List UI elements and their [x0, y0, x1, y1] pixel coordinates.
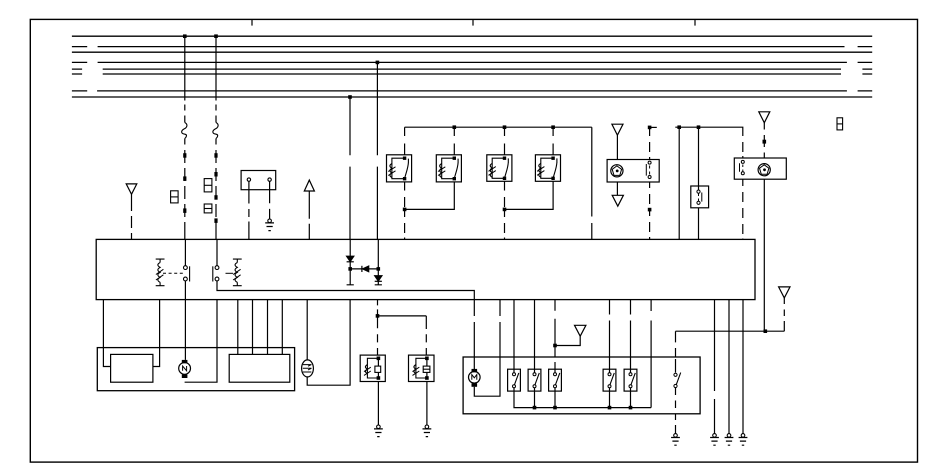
triangle connector C (above pump P1) — [612, 124, 623, 135]
actuation link B — [226, 272, 234, 274]
node below P1 switch — [648, 208, 652, 212]
pump motor symbol in P1 — [611, 165, 623, 177]
wire jog to horn H2 — [378, 316, 427, 355]
wire motor M loop — [474, 357, 500, 396]
wire lamp L1 bottom loop to ECU — [307, 300, 350, 386]
pump unit P1 box — [607, 160, 659, 183]
wire ECU pins to module M2 — [238, 300, 282, 355]
node with stub x=649.6 y=127.4 — [648, 126, 657, 130]
node bus x=555 — [553, 406, 557, 410]
triangle connector B (up arrow, x=309.3) — [304, 180, 314, 191]
wire triangle F to net — [783, 298, 785, 331]
node rail x=698.5 — [697, 125, 701, 129]
node below R3 — [503, 208, 507, 212]
wire relay feed rail y=127.2 — [405, 127, 592, 239]
connector C2 two-cavity box — [204, 179, 212, 192]
diode D1 inside ECU — [347, 239, 354, 284]
relay R3 — [487, 155, 512, 182]
wire tie R1-R2 bottoms — [405, 182, 455, 210]
node on bus line 1 at x=184.8 — [183, 34, 187, 38]
wire tie R3-R4 bottoms — [505, 181, 554, 209]
lamp L1 solenoid — [302, 360, 314, 377]
ground triangle under P1 — [612, 195, 623, 206]
node rail x=504.5 — [503, 125, 507, 129]
wire bus line 2 — [72, 46, 872, 48]
relay coil B inside ECU — [233, 259, 242, 286]
triangle connector A (to ECU, x=131.5) — [126, 184, 137, 194]
relay R2 — [436, 155, 461, 182]
node jog x=377.5 — [376, 314, 380, 318]
node rail x=553.1 — [551, 125, 555, 129]
wire drop from bus at x=184.8 — [184, 36, 186, 239]
wire ECU pin to actuator motor M — [473, 300, 475, 372]
switch box SW1 — [691, 186, 709, 208]
ground G3 — [423, 425, 432, 437]
node on bus line 4 at x=377.4 — [376, 61, 380, 65]
wire rail to relay R2 — [453, 127, 455, 155]
pump unit P2 box — [734, 158, 786, 179]
wire ECU pin x=743 to ground G7 — [742, 300, 744, 434]
wire relay R1 bottom to node — [404, 182, 406, 240]
motor N — [179, 360, 191, 378]
node on bus line 1 at x=216 — [214, 34, 218, 38]
wire feed rail y=127.2 right section — [675, 127, 743, 158]
tick mark 1 on top border — [251, 19, 253, 25]
wire drop from bus at x=377.4 — [376, 62, 378, 239]
switch S4 — [603, 369, 616, 391]
fusible link on wire x=216 — [213, 123, 218, 139]
switch S3 — [549, 369, 562, 391]
wire bus line 7 — [72, 90, 872, 92]
switch S1 — [508, 369, 521, 391]
triangle connector D (above pump P2) — [759, 112, 770, 123]
wire x=649.6 down to pump box P1 — [649, 127, 651, 159]
switch S5 — [624, 369, 637, 391]
wire triangle E stub to node — [555, 336, 580, 345]
wire rail to relay R4 — [552, 127, 554, 155]
wire P1 switch bottom to ECU — [649, 182, 651, 239]
wire ECU pin x=651.1 to bus — [650, 300, 652, 408]
wire rail to relay R3 — [504, 127, 506, 155]
wire ECU pin x=729 to ground G6 — [728, 300, 730, 434]
wire bus line 4 — [72, 61, 872, 63]
triangle connector F (x=784.3) — [779, 287, 790, 298]
wire drop x=679.2 to ECU — [678, 127, 680, 239]
tick mark 2 on top border — [472, 19, 474, 25]
ground G7 — [739, 434, 748, 446]
wire P2 motor bottom down to node — [763, 179, 765, 331]
relay R1 — [387, 155, 412, 182]
connector marks on wire x=216 — [214, 153, 217, 223]
pump motor symbol in P2 — [758, 164, 770, 176]
wire from triangle A to ECU — [131, 194, 133, 239]
horn H2 — [409, 355, 435, 381]
relay contact A inside ECU (x=185.4) — [184, 239, 190, 299]
switch S6 (x=675.5) — [674, 331, 681, 433]
wire ECU pin to motor N — [184, 300, 186, 360]
wire P1 bottom to ground triangle — [616, 182, 618, 195]
wire ECU pin to switch S5 — [630, 300, 632, 373]
wire drop from bus at x=350 — [349, 97, 351, 239]
relay R4 — [535, 155, 560, 182]
ground G5 — [710, 434, 719, 446]
node below R1 — [403, 208, 407, 212]
wire from triangle B to ECU — [308, 191, 310, 239]
component block K2 bottom middle — [463, 357, 700, 414]
node x=765.3 y=331.2 — [764, 329, 768, 333]
wire P2 switch bottom to ECU — [742, 179, 744, 239]
node x=555 y=345.5 — [553, 344, 557, 348]
wire SW1 bottom to ECU — [698, 208, 700, 240]
connector mark on wire x=764.3 — [763, 140, 767, 144]
component block K1 bottom left — [97, 348, 294, 391]
node on bus line 8 at x=350 — [348, 95, 352, 99]
connector C4 two-cavity box top right — [837, 118, 843, 130]
ground G1 — [265, 219, 274, 231]
wire ECU pin x=500 to block K2 — [499, 300, 501, 357]
fusible link on wire x=184.8 — [182, 123, 187, 139]
diode D2 inside ECU — [350, 266, 378, 272]
wire from J1 left pin to ECU — [248, 181, 250, 239]
module M1 inner box — [111, 354, 153, 382]
wire y=331.2 net — [676, 330, 785, 332]
switch contact in P1 (x=649.6) — [646, 161, 651, 178]
wire ECU pin to module M1 right — [153, 300, 160, 367]
diode D3 inside ECU — [375, 239, 382, 284]
wire bus line 8 — [72, 96, 872, 98]
wire relay R3 bottom to node — [504, 181, 506, 239]
wire bus line 5 — [72, 68, 872, 70]
wire ECU pin x=714.5 to ground G5 — [714, 300, 716, 434]
wire ECU pin x=377.5 to horn H1 — [377, 300, 379, 356]
connector C1 two-cavity box — [171, 191, 179, 203]
wire ECU pin to module M1 left — [103, 300, 110, 367]
op-amp U1 ECU box — [96, 239, 755, 299]
switch contact in P2 (x=742.8) — [740, 160, 745, 174]
wire ECU pin to switch S2 — [534, 300, 536, 373]
wire horn H1 to ground G2 — [377, 382, 379, 426]
connector marks on wire x=184.8 — [183, 153, 186, 213]
wire ECU pin to switch S4 — [609, 300, 611, 373]
connector C3 two-cavity box — [204, 204, 212, 213]
ground G4 — [671, 434, 680, 446]
relay contact B inside ECU (x=217) — [213, 239, 475, 299]
node rail x=454.3 — [453, 125, 457, 129]
node bus x=609.5 — [608, 406, 612, 410]
node bus x=630.5 — [629, 406, 633, 410]
wire ECU pin to switch S1 — [513, 300, 515, 373]
wire bus line 1 — [72, 35, 872, 37]
relay coil A inside ECU — [156, 259, 165, 286]
ground G2 — [374, 425, 383, 437]
actuator motor M — [469, 369, 481, 387]
node diode junction right — [377, 267, 381, 271]
wire drop x=698.5 to switch box SW1 — [698, 127, 700, 190]
node rail x=679.2 — [677, 125, 681, 129]
wire rail to relay R1 — [404, 127, 406, 155]
switch S2 — [528, 369, 541, 391]
dashed actuation link A — [163, 272, 183, 274]
wire ECU pin to lamp L1 — [306, 300, 308, 360]
wire triangle D to pump box P2 — [763, 123, 765, 158]
wire switch ground bus — [514, 388, 651, 408]
junction block J1 with two terminals — [241, 171, 276, 190]
ground G6 — [725, 434, 734, 446]
wire bus line 3 — [72, 51, 872, 53]
wire from J1 right pin to ground — [269, 181, 271, 219]
wire triangle C to pump box P1 — [616, 135, 618, 159]
wire bus line 6 — [72, 73, 872, 75]
wire drop from bus at x=216 — [215, 36, 217, 239]
module M2 inner box — [229, 354, 290, 382]
node bus x=534.5 — [533, 406, 537, 410]
wire horn H2 to ground G3 — [426, 382, 428, 426]
triangle connector E (x=580) — [575, 325, 586, 336]
tick mark 3 on top border — [694, 19, 696, 25]
horn H1 — [360, 355, 385, 381]
wire ECU pin x=217 to motor N bottom — [185, 300, 217, 383]
node diode junction left — [348, 267, 352, 271]
wire ECU pin to switch S3 — [554, 300, 556, 373]
